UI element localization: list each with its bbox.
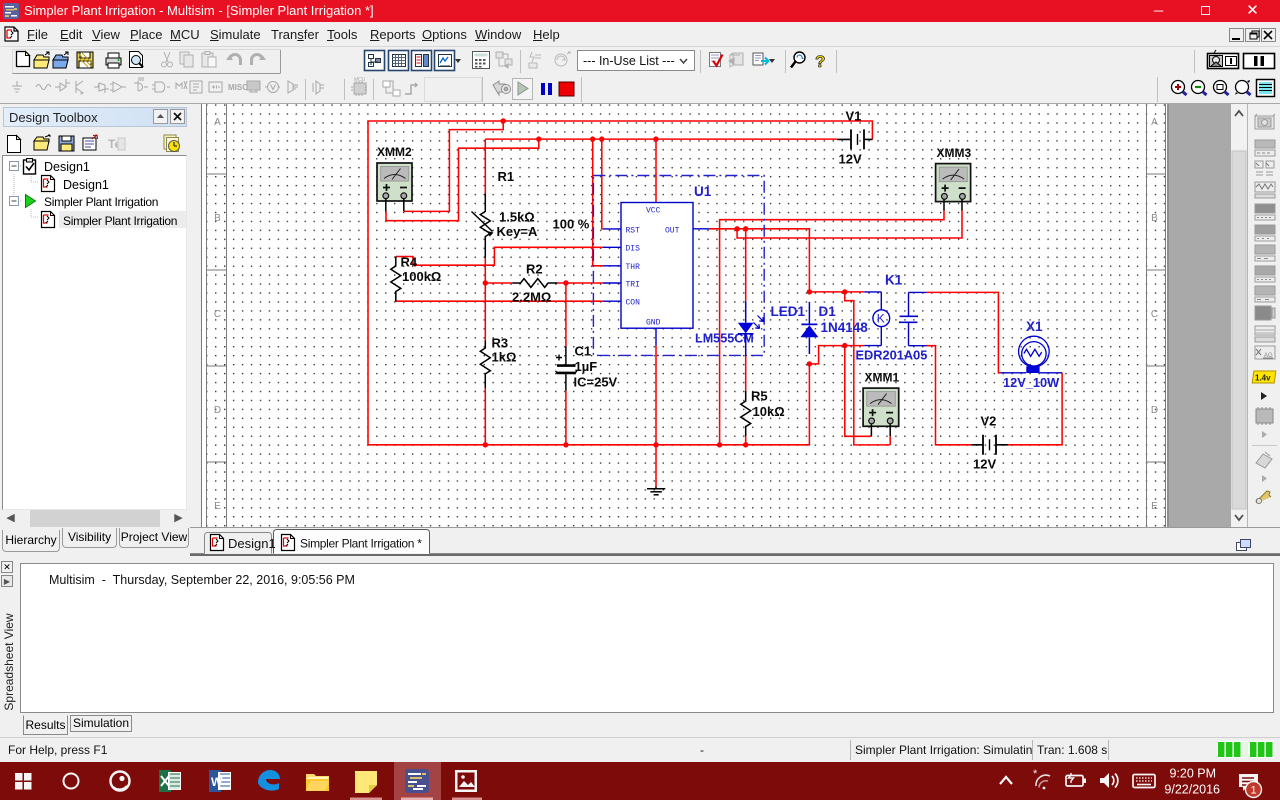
sheet left border column: [207, 104, 227, 527]
junction OUT net / XMM1 minus drop: [842, 289, 847, 294]
svg-text:1kΩ: 1kΩ: [492, 350, 517, 365]
clipboard icon: [24, 159, 36, 175]
junction ground rail / R3: [483, 442, 488, 447]
connector: [288, 81, 298, 93]
multisim icon: [405, 769, 429, 793]
junction ground rail / GND: [653, 442, 658, 447]
calculator icon: [473, 52, 490, 69]
junction VCC rail / XMM2 plus: [536, 136, 541, 141]
label C1: [574, 344, 618, 390]
save: [77, 52, 93, 68]
label R2: [512, 262, 551, 305]
junction node B R1/R2/R3: [483, 280, 488, 285]
svg-text:R2: R2: [526, 262, 543, 277]
wire R3 bottom to ground rail: [484, 388, 486, 445]
svg-text:AG: AG: [1264, 353, 1273, 359]
taskbar: [0, 762, 1280, 800]
svg-text:X1: X1: [1026, 319, 1043, 334]
wire D1 top to relay coil: [809, 291, 864, 293]
svg-text:EDR201A05: EDR201A05: [856, 348, 928, 363]
multimeter XMM2: [377, 163, 412, 211]
junction node C R2/C1/TRI: [563, 280, 568, 285]
svg-text:MISC: MISC: [228, 83, 248, 92]
misc digital: [152, 82, 170, 92]
analog amp: [110, 82, 126, 92]
motor: [268, 82, 279, 93]
tree connectors: [14, 166, 39, 217]
right buttons: [1194, 50, 1196, 73]
svg-text:*: *: [1033, 768, 1038, 780]
expander design1: [10, 162, 19, 171]
svg-text:R5: R5: [751, 389, 768, 404]
label V1: [839, 109, 862, 167]
wire OUT net to LED1 top: [745, 229, 747, 301]
start: [15, 773, 32, 790]
panel toolbar: [6, 134, 186, 156]
pin labels U1: [626, 207, 680, 328]
panel caption: [3, 107, 187, 127]
relay K1 contact: [899, 292, 927, 345]
wire D1 bottom jog to coil return: [809, 346, 844, 364]
stop: [559, 82, 574, 96]
svg-text:Design1: Design1: [63, 178, 109, 192]
cortana: [64, 774, 79, 789]
junction OUT net / D1 top: [807, 289, 812, 294]
right instruments toolbar: [1247, 104, 1280, 556]
svg-text:1N4148: 1N4148: [821, 320, 869, 335]
expander SPI: [10, 197, 19, 206]
wire LED1 bottom to R5 top: [745, 356, 747, 391]
label R5: [751, 389, 785, 420]
svg-text:D: D: [214, 405, 221, 416]
multimeter XMM3: [936, 164, 971, 211]
schematic page icon: [42, 176, 55, 192]
photos: [455, 770, 477, 792]
label R3: [492, 336, 517, 365]
svg-text:--- In-Use List ---: --- In-Use List ---: [583, 54, 675, 68]
svg-text:R4: R4: [401, 255, 418, 270]
in-use list combo: [578, 51, 695, 71]
tray chevron: [1000, 777, 1012, 784]
junction ground rail / XMM3 plus: [717, 442, 722, 447]
svg-text:1: 1: [1250, 785, 1256, 797]
potentiometer R1: [472, 194, 494, 258]
svg-text:TRI: TRI: [626, 280, 640, 289]
off-sheet gray area: [1167, 104, 1231, 527]
simulate switch icon: [493, 81, 511, 95]
svg-text:R1: R1: [498, 169, 515, 184]
ground: [12, 81, 22, 92]
svg-text:W: W: [211, 775, 223, 789]
svg-text:D1: D1: [819, 304, 837, 319]
running underlines: [350, 798, 382, 800]
wire R4 bottom to CON: [396, 292, 603, 301]
svg-text:E: E: [214, 501, 221, 512]
wire R4 top to DIS: [396, 247, 603, 265]
print: [106, 53, 121, 68]
menu bar: [0, 22, 1280, 47]
wire VCC rail to RST: [602, 139, 603, 229]
cut (disabled): [162, 52, 173, 67]
wire XMM2 minus to top rail: [404, 121, 503, 211]
excel: [159, 770, 181, 792]
svg-text:Key=A: Key=A: [497, 224, 538, 239]
svg-text:B: B: [214, 213, 221, 224]
new: [17, 52, 30, 67]
junction VCC rail / RST drop: [599, 136, 604, 141]
redo (disabled): [252, 55, 267, 66]
capacitor C1: [556, 346, 577, 390]
toggle buttons: [365, 51, 455, 71]
junction D1 bottom / coil return: [807, 361, 812, 366]
wire coil node to XMM1 plus: [845, 346, 872, 437]
wire XMM3 minus to OUT net: [737, 211, 962, 239]
svg-text:IC=25V: IC=25V: [574, 375, 618, 390]
paste (disabled): [202, 52, 216, 68]
svg-text:Design1: Design1: [228, 536, 276, 551]
explorer: [306, 774, 329, 791]
speaker: [1100, 773, 1118, 788]
toolbar row 1: [0, 47, 1280, 75]
schematic canvas: [201, 104, 203, 527]
relay K1 coil: [864, 292, 889, 346]
sheet right border column: [1147, 104, 1166, 527]
bottom tabs: [0, 530, 190, 556]
svg-text:THR: THR: [626, 263, 641, 272]
wire coil return red segment: [845, 345, 865, 347]
svg-text:CON: CON: [626, 299, 641, 308]
toolbar row 2: [0, 75, 1280, 104]
junction OUT net / XMM3 minus: [734, 226, 739, 231]
diode arrow: [94, 83, 109, 93]
svg-text:LED1: LED1: [771, 304, 806, 319]
MCU chip: [351, 77, 367, 96]
wire VCC rail to THR: [593, 139, 603, 266]
find: [791, 52, 805, 68]
op-amp/timer U1 LM555CM box: [603, 202, 710, 346]
multimeter XMM1: [863, 388, 899, 436]
junction VCC rail / pin VCC drop: [653, 136, 658, 141]
resistor R5: [741, 391, 751, 436]
svg-text:OUT: OUT: [665, 226, 680, 235]
h scrollbar: [2, 510, 187, 527]
open samples: [53, 52, 68, 68]
highlighted multisim app button: [394, 762, 441, 800]
indicator: [176, 81, 187, 89]
battery: [1066, 773, 1086, 786]
svg-text:B: B: [1151, 213, 1158, 224]
svg-text:VCC: VCC: [646, 207, 661, 216]
resistor R4: [391, 257, 401, 302]
back annotate (disabled): [729, 53, 743, 67]
LED LED1: [738, 301, 764, 356]
svg-text:R3: R3: [492, 336, 509, 351]
peripheral: [247, 81, 260, 90]
svg-text:100kΩ: 100kΩ: [402, 269, 441, 284]
battery V1: [837, 129, 872, 149]
hierarchy blocks: [383, 81, 400, 96]
play button: [513, 79, 533, 100]
label R4: [401, 255, 442, 285]
svg-text:U1: U1: [694, 184, 712, 199]
svg-text:2.2MΩ: 2.2MΩ: [512, 290, 551, 305]
step shape: [405, 83, 417, 94]
lamp X1: [1001, 336, 1063, 373]
design toolbox panel: [0, 104, 190, 556]
tree box: [2, 155, 187, 510]
copy (disabled): [180, 52, 193, 67]
svg-text:?: ?: [815, 52, 825, 71]
green run arrow: [26, 195, 36, 208]
wire node C to C1 top: [565, 283, 567, 346]
schematic page icon: [42, 212, 55, 228]
wifi: [1033, 768, 1050, 789]
svg-text:Simpler Plant Irrigation: Simpler Plant Irrigation: [63, 214, 177, 228]
wire 555 GND to ground rail: [655, 346, 657, 445]
svg-text:A: A: [214, 117, 221, 128]
diode pair: [55, 79, 70, 91]
svg-text:RST: RST: [626, 226, 641, 235]
svg-text:9/22/2016: 9/22/2016: [1164, 783, 1220, 797]
svg-text:DIS: DIS: [626, 245, 641, 254]
svg-text:100 %: 100 %: [553, 217, 590, 232]
disabled pair: [529, 52, 541, 68]
wire R1 top to VCC rail: [484, 139, 486, 193]
undo (disabled): [226, 55, 241, 66]
junction coil return / XMM1 plus drop: [842, 343, 847, 348]
keyboard: [1133, 775, 1155, 788]
svg-text:Design1: Design1: [44, 160, 90, 174]
MDI child buttons: [1229, 28, 1277, 43]
small window icon at right: [1237, 540, 1251, 551]
resistor R2: [512, 279, 557, 288]
wire R5 bottom to ground rail: [745, 436, 747, 445]
power: [190, 81, 202, 93]
svg-text:K1: K1: [885, 273, 903, 288]
spreadsheet view: [0, 558, 1280, 737]
svg-text:XMM3: XMM3: [937, 146, 972, 160]
design tabs: [190, 527, 1280, 556]
wire ground rail to ground symbol: [655, 445, 657, 487]
word: [209, 770, 231, 792]
svg-text:1.4v: 1.4v: [1255, 374, 1271, 383]
edge: [258, 770, 280, 791]
label R1: [497, 169, 590, 239]
svg-text:10kΩ: 10kΩ: [753, 404, 785, 419]
source wave: [36, 85, 51, 90]
wire C1 bottom to ground rail: [565, 391, 567, 445]
wire lamp right to V2 plus: [1008, 373, 1062, 445]
wire relay contact bottom to V2 minus: [927, 346, 972, 445]
open: [34, 52, 49, 68]
battery box: [209, 82, 222, 92]
svg-text:1µF: 1µF: [575, 359, 598, 374]
wire OUT to D1 top: [710, 229, 810, 292]
wire R2 right to TRI: [558, 282, 603, 284]
svg-text:V2: V2: [981, 414, 997, 429]
svg-text:C1: C1: [575, 344, 592, 359]
svg-text:Simpler Plant Irrigation: Simpler Plant Irrigation: [44, 195, 158, 209]
wire VCC rail: [485, 138, 837, 140]
svg-text:XMM2: XMM2: [377, 145, 412, 159]
svg-text:1.5kΩ: 1.5kΩ: [499, 210, 535, 225]
pause: [541, 83, 545, 95]
resistor R3: [480, 341, 490, 389]
svg-text:C: C: [1151, 309, 1158, 320]
junction ground rail / R5: [743, 442, 748, 447]
preview: [130, 52, 144, 68]
svg-text:A: A: [1151, 117, 1158, 128]
diode D1: [800, 302, 818, 354]
notifications: [1239, 774, 1262, 798]
label V2: [973, 414, 996, 472]
svg-text:K: K: [877, 312, 885, 326]
wire D1 top node to XMM1 minus: [845, 292, 890, 445]
wire VCC rail to pin VCC: [655, 139, 657, 202]
transistor: [76, 81, 83, 94]
svg-text:12V_10W: 12V_10W: [1003, 375, 1060, 390]
status bar: [0, 737, 1280, 762]
svg-text:C: C: [214, 309, 221, 320]
svg-text:E: E: [1151, 501, 1158, 512]
wire XMM2 plus to VCC rail: [386, 139, 539, 221]
ERC check: [710, 53, 723, 67]
svg-text:Simpler Plant Irrigation *: Simpler Plant Irrigation *: [300, 537, 422, 551]
forward annotate: [753, 53, 769, 65]
hierarchical block dashed box: [593, 176, 764, 356]
wire XMM1 minus lead lower: [889, 436, 891, 445]
battery V2: [971, 435, 1008, 455]
ground: [647, 487, 665, 495]
junction top rail / XMM2 minus: [501, 118, 506, 123]
wire R1 bottom to node B: [484, 258, 486, 283]
hierarchy transfer (disabled): [496, 52, 512, 68]
svg-text:XMM1: XMM1: [865, 371, 900, 385]
wire relay contact top to lamp: [927, 292, 1001, 372]
junction OUT net / LED1: [743, 226, 748, 231]
window title bar: [0, 0, 1280, 22]
svg-text:GND: GND: [646, 319, 661, 328]
wire node B to R2 left: [485, 282, 512, 284]
vertical scrollbar: [1231, 104, 1247, 527]
wire battery-negative top rail: [368, 121, 872, 445]
right zoom icons: [1157, 77, 1159, 102]
sticky notes: [355, 771, 377, 793]
junction ground rail / C1: [563, 442, 568, 447]
junction VCC rail / THR drop: [590, 136, 595, 141]
svg-text:12V: 12V: [839, 152, 862, 167]
svg-text:9:20 PM: 9:20 PM: [1169, 767, 1216, 781]
svg-text:MCU: MCU: [354, 77, 366, 83]
recorder: [111, 772, 130, 791]
svg-text:V1: V1: [846, 109, 862, 124]
svg-text:12V: 12V: [973, 457, 996, 472]
svg-text:D: D: [1151, 405, 1158, 416]
CMOS: [134, 78, 148, 91]
wire XMM3 plus to ground rail: [720, 211, 944, 445]
wire node B to R3 top: [484, 283, 486, 341]
